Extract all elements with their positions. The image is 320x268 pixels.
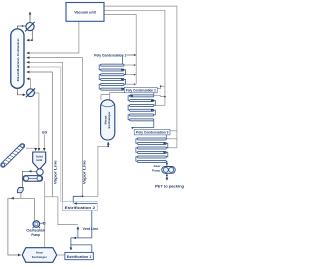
wire serp1 bar3 ext to V1 [124,74,136,76]
label cartesian pump [26,228,45,237]
wire V2 stub to PC2 label [157,86,165,88]
serpentine 2 arrows [130,95,154,130]
wire estrification 2 down [91,211,93,238]
serpentine 1 entry [122,55,124,64]
wire column bottom to reboiler circle [17,88,25,95]
svg-text:Pump: Pump [31,233,40,237]
screw conveyor [23,176,43,182]
svg-text:Estrification 2: Estrification 2 [65,206,96,210]
wire vapor line 1 to column [27,62,63,202]
svg-text:tank: tank [36,158,42,162]
rotary valve circle under tank [37,169,44,176]
distillation column [11,29,24,88]
serpentine 2 entry [153,93,155,95]
label poly condensation 3 box [134,129,170,135]
svg-text:Exchanger: Exchanger [32,255,48,259]
node gear pump outlet dot [166,175,168,177]
node condenser inlet dot [22,25,24,27]
serpentine 3 bars [137,138,166,163]
wire line4 to column [27,67,61,202]
wire serpentine 3 exit to gear pump [165,161,168,166]
node reflux dot [31,39,33,41]
wire ladder rung 2 [71,244,92,246]
serpentine 1 bars [101,64,124,90]
wire tee right to cartesian pump [33,198,35,220]
wire tee left to bottom heat exchanger [8,198,35,255]
serpentine 2 exit to PC3 [132,121,154,128]
vent arrow up [29,12,31,22]
wire ladder left down into estrification 1 [70,238,72,250]
serpentine 1 arrows [121,65,135,91]
wire vacuum to V2 [104,10,165,105]
estrification 2 box [62,202,97,211]
heat exchanger vertical vessel [101,100,115,140]
svg-text:Pump: Pump [152,169,161,173]
wire EG to tank inlet3 [43,135,45,151]
serpentine 2 bars [130,95,154,121]
svg-text:Vapor Line: Vapor Line [83,160,87,184]
wire V3 stub to PC3 label [170,130,177,132]
svg-text:Estrification 1: Estrification 1 [67,255,92,259]
svg-text:Poly Condensation 3: Poly Condensation 3 [136,131,169,135]
wire serp1 bar1 ext to V1 [124,64,136,66]
wire V3 stub to serp3 bar3 [167,147,177,149]
wire heat exchanger to estrification 1 [57,254,65,256]
wire V2 stub to serp2 bar3 [154,104,165,106]
serpentine 1 u-turns [99,65,125,89]
belt conveyor diagonal [0,143,26,169]
serpentine 3 u-turns [136,139,168,162]
svg-text:Poly Condensation 1: Poly Condensation 1 [94,53,126,57]
cartesian pump [33,221,45,229]
reboiler circle [26,88,35,97]
bottom heat exchanger [22,248,57,263]
vacuum unit box [66,3,104,22]
label poly condensation 2 box [124,87,157,93]
svg-text:Distillation Column: Distillation Column [16,38,20,81]
wire pi split [45,197,78,225]
svg-text:PET to packing: PET to packing [155,185,184,189]
wire vapor line 2 to column [27,58,83,197]
wire gear pump outlet arrow [166,173,168,180]
wire vacuum riser to column [27,21,79,53]
serpentine 3 entry [165,135,167,138]
wire serp1 bar5 ext to V1 [124,83,136,85]
condenser circle [25,22,35,32]
wire vacuum to V3 [104,6,177,148]
wire V2 stub to serp2 bar1 [154,95,165,98]
svg-text:EG: EG [42,130,47,134]
gear pump [162,167,175,174]
wire heat exchanger top right drop [109,95,111,100]
wire tag to tee [20,193,22,198]
tag symbol [17,188,23,193]
node V2 stub dots [160,85,162,87]
serpentine 3 arrows [164,142,167,153]
wire vapor2 junction to heat exchanger feed [83,146,109,196]
svg-text:Cartesian: Cartesian [26,228,45,232]
svg-text:Heat: Heat [36,251,43,255]
node gear pump inlet dot [166,163,168,165]
estrification 1 box [65,252,93,259]
label gear pump [152,164,161,172]
node V1 dot [134,54,136,56]
svg-text:Vacuum unit: Vacuum unit [74,11,96,15]
wire tee arrowhead left [11,197,13,199]
wire reboiler circle to column [27,79,31,89]
wire conveyor drop to heat exchanger bottom [44,181,46,247]
wire column top to condenser [17,26,25,29]
wire conveyor connector to tank [26,148,36,150]
wire line5 to column [27,72,53,197]
vent line arrow up [77,227,79,238]
node vapor junction dot [82,195,84,197]
solid tank [33,152,46,170]
svg-text:Vapor Line: Vapor Line [54,160,58,184]
wire PC2 label line to heat exchanger top [101,93,125,100]
wire condenser reflux to column [27,31,33,41]
svg-text:Poly Condensation 2: Poly Condensation 2 [126,89,156,93]
svg-text:Exchanger: Exchanger [107,111,111,129]
wire junction to estrification 2 [73,196,82,203]
wire reboiler to tank inlet2 [34,93,39,151]
wire ladder right drop [91,245,93,253]
svg-text:Gear: Gear [153,164,161,168]
wire V3 stub to serp3 bar1 [167,138,177,140]
wire into heat exchanger bottom [107,142,109,146]
serpentine 2 u-turns [128,96,155,120]
svg-text:Vent Line: Vent Line [83,227,99,231]
wire arrow into estrification 2 [76,202,98,204]
wire rotary valve left arrow down to tag [23,171,37,187]
wire vacuum to V1 [104,15,136,84]
node heat exchanger bottom dot [107,145,109,147]
wire PC1 label to V1 [126,54,136,56]
wire ladder rung 1 [71,237,92,239]
